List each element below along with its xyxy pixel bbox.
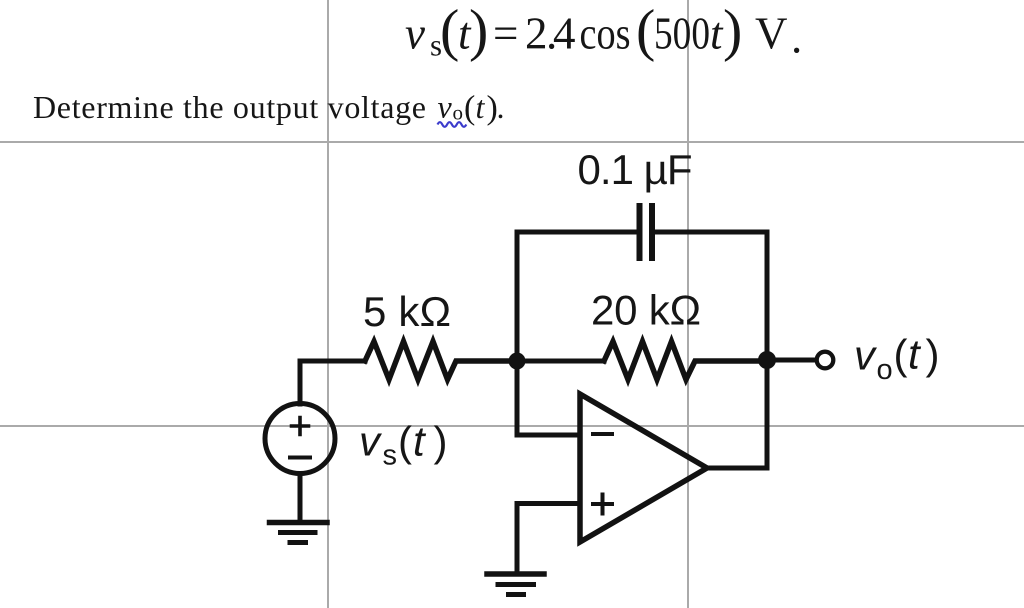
wire: node A to R2 [521, 359, 604, 364]
source minus sign [290, 456, 310, 460]
svg-text:o: o [877, 354, 893, 386]
table grid line: vertical column border right [687, 0, 689, 608]
svg-text:Determine the output voltage: Determine the output voltage [33, 89, 426, 125]
svg-text:): ) [723, 0, 742, 63]
svg-text:v: v [405, 9, 425, 59]
ground 2 bar 2 [498, 582, 534, 587]
svg-text:4: 4 [553, 9, 576, 59]
wire: top feedback right segment down to op-amp output [655, 232, 767, 468]
ground 1 bar 1 [270, 520, 328, 526]
source plus sign [292, 418, 309, 435]
svg-text:20 kΩ: 20 kΩ [591, 287, 701, 334]
op-amp minus input sign [593, 432, 612, 436]
svg-text:v: v [359, 418, 383, 465]
output terminal open circle [817, 352, 834, 369]
svg-text:0.1 µF: 0.1 µF [578, 146, 693, 193]
ground 1 bar 2 [281, 530, 316, 535]
svg-text:(: ( [464, 89, 475, 126]
svg-text:5 kΩ: 5 kΩ [363, 288, 451, 335]
svg-text:t: t [476, 89, 486, 125]
wire: non-inverting input to ground 2 [517, 504, 578, 572]
node A junction dot [509, 353, 526, 370]
svg-text:o: o [453, 101, 464, 125]
resistor R2 20k zigzag [604, 342, 763, 380]
svg-text:v: v [854, 332, 878, 379]
svg-text:.: . [497, 89, 505, 125]
blue spellcheck squiggle under vo [438, 122, 467, 127]
ground 1 bar 3 [290, 540, 306, 545]
svg-text:.: . [791, 13, 802, 63]
svg-text:t: t [710, 9, 724, 59]
svg-text:cos: cos [580, 9, 631, 59]
svg-text:(: ( [894, 331, 908, 378]
table grid line: horizontal row border upper [0, 141, 1024, 143]
resistor R1 5k zigzag [365, 342, 513, 380]
ground 2 bar 1 [487, 571, 544, 577]
svg-text:): ) [434, 418, 448, 465]
svg-text:=: = [493, 9, 518, 59]
table grid line: vertical column border left [327, 0, 329, 608]
svg-text:(: ( [636, 0, 655, 63]
op-amp U1 triangle [580, 394, 707, 542]
svg-text:): ) [469, 0, 488, 63]
capacitor C1 plate right [649, 206, 655, 258]
svg-text:(: ( [440, 0, 459, 63]
wire: node A up and top feedback left segment [517, 232, 636, 361]
svg-text:500: 500 [654, 9, 710, 59]
wire: source bottom to ground 1 [298, 474, 303, 521]
wire: output node to terminal [767, 358, 816, 363]
ground 2 bar 3 [509, 592, 524, 597]
svg-text:v: v [438, 89, 453, 125]
svg-text:V: V [755, 9, 788, 59]
wire: node A down to inverting input [517, 361, 578, 435]
svg-text:t: t [413, 418, 427, 465]
svg-text:t: t [908, 331, 922, 378]
capacitor C1 plate left [637, 206, 643, 258]
node B output junction dot [758, 351, 776, 369]
svg-text:(: ( [398, 418, 412, 465]
svg-text:2: 2 [525, 9, 548, 59]
voltage source VS circle [265, 404, 335, 474]
wire: source top to R1 corner [300, 361, 365, 404]
svg-text:s: s [383, 440, 398, 472]
op-amp plus input sign [593, 495, 612, 514]
svg-text:): ) [926, 331, 940, 378]
table grid line: horizontal row border lower [0, 425, 1024, 427]
